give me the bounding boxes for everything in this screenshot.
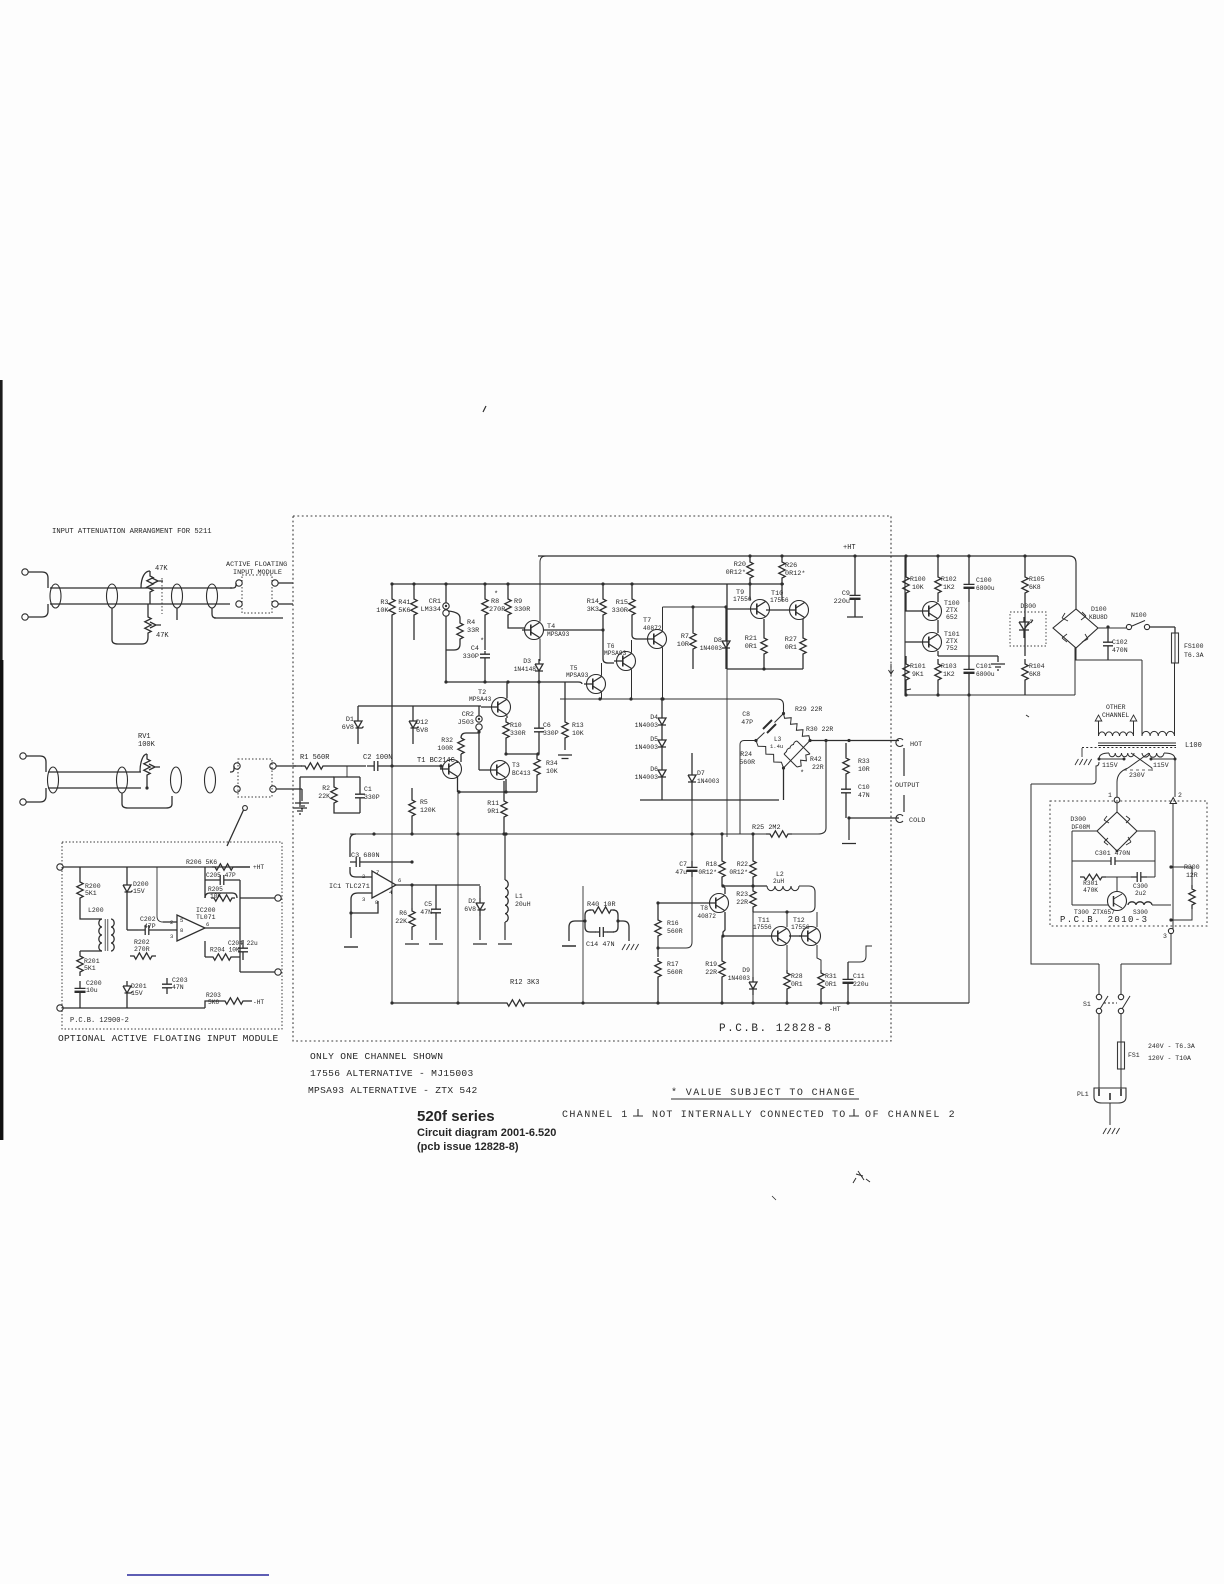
svg-text:MPSA93 ALTERNATIVE - ZTX 5: MPSA93 ALTERNATIVE - ZTX 542 xyxy=(308,1085,478,1096)
svg-text:IC1 TLC271: IC1 TLC271 xyxy=(329,883,370,891)
svg-text:R200: R200 xyxy=(85,883,101,890)
svg-text:5K6: 5K6 xyxy=(398,607,410,615)
svg-text:3K3: 3K3 xyxy=(587,606,599,614)
svg-text:C3 680N: C3 680N xyxy=(351,852,380,860)
svg-text:0R1: 0R1 xyxy=(825,981,837,988)
svg-text:47N: 47N xyxy=(420,909,432,916)
svg-text:47N: 47N xyxy=(858,792,870,799)
svg-text:C8: C8 xyxy=(742,711,750,718)
svg-text:7: 7 xyxy=(376,869,379,876)
svg-text:Circuit diagram 2001-6.520: Circuit diagram 2001-6.520 xyxy=(417,1127,556,1139)
svg-text:752: 752 xyxy=(946,645,958,652)
svg-text:1N4003: 1N4003 xyxy=(728,975,751,982)
svg-text:520f series: 520f series xyxy=(417,1108,495,1125)
svg-text:R2: R2 xyxy=(322,785,330,792)
svg-text:T8: T8 xyxy=(700,905,708,912)
svg-text:L2: L2 xyxy=(776,871,784,878)
svg-text:R23: R23 xyxy=(736,891,748,898)
svg-text:17556: 17556 xyxy=(770,597,789,604)
svg-text:6800u: 6800u xyxy=(976,585,995,592)
svg-text:1N4003: 1N4003 xyxy=(635,722,659,729)
svg-text:230V: 230V xyxy=(1129,772,1145,779)
svg-text:1: 1 xyxy=(1108,792,1112,799)
svg-text:R11: R11 xyxy=(487,800,499,807)
svg-text:R204 10K: R204 10K xyxy=(210,947,240,954)
svg-text:2u2: 2u2 xyxy=(1135,890,1146,897)
svg-text:R8: R8 xyxy=(491,598,499,606)
svg-text:C202: C202 xyxy=(140,916,156,923)
svg-text:HOT: HOT xyxy=(910,741,922,749)
svg-text:560R: 560R xyxy=(667,969,683,976)
svg-text:1N4148: 1N4148 xyxy=(514,666,537,673)
svg-text:R15: R15 xyxy=(616,599,628,607)
svg-text:10K: 10K xyxy=(912,584,924,591)
svg-text:N100: N100 xyxy=(1131,612,1147,619)
svg-text:3: 3 xyxy=(362,896,365,903)
svg-text:0R12*: 0R12* xyxy=(729,869,748,876)
svg-text:R28: R28 xyxy=(791,973,803,980)
svg-text:P.C.B. 2010-3: P.C.B. 2010-3 xyxy=(1060,915,1148,925)
svg-text:T7: T7 xyxy=(643,617,651,625)
svg-text:47P: 47P xyxy=(144,923,156,930)
svg-text:47P: 47P xyxy=(741,719,753,726)
svg-text:R16: R16 xyxy=(667,920,679,927)
svg-text:17556: 17556 xyxy=(791,924,810,931)
svg-text:R20: R20 xyxy=(734,561,746,569)
svg-text:R27: R27 xyxy=(785,636,797,644)
svg-text:R206 5K6: R206 5K6 xyxy=(186,859,217,866)
svg-text:R17: R17 xyxy=(667,961,679,968)
svg-text:R101: R101 xyxy=(910,663,926,670)
svg-text:R102: R102 xyxy=(941,576,957,583)
svg-text:NOT INTERNALLY CONNECTED TO: NOT INTERNALLY CONNECTED TO xyxy=(652,1110,846,1121)
svg-text:D4: D4 xyxy=(650,714,658,721)
svg-text:CHANNEL: CHANNEL xyxy=(1102,712,1129,719)
svg-text:R103: R103 xyxy=(941,663,957,670)
svg-text:0R12*: 0R12* xyxy=(785,570,805,578)
svg-text:-HT: -HT xyxy=(829,1006,841,1013)
svg-text:INPUT MODULE: INPUT MODULE xyxy=(233,569,282,577)
svg-text:C7: C7 xyxy=(679,861,687,868)
svg-text:D2: D2 xyxy=(468,898,476,905)
svg-text:OTHER: OTHER xyxy=(1106,704,1126,711)
svg-text:0R12*: 0R12* xyxy=(726,569,746,577)
svg-text:CHANNEL 1: CHANNEL 1 xyxy=(562,1110,629,1121)
svg-text:560R: 560R xyxy=(667,928,683,935)
svg-text:0R1: 0R1 xyxy=(791,981,803,988)
svg-text:R100: R100 xyxy=(910,576,926,583)
svg-text:T6: T6 xyxy=(607,643,615,650)
svg-text:R41: R41 xyxy=(398,599,410,607)
svg-text:15V: 15V xyxy=(131,990,143,997)
svg-text:C203: C203 xyxy=(172,977,188,984)
svg-text:1K2: 1K2 xyxy=(943,584,955,591)
svg-text:R13: R13 xyxy=(572,722,584,729)
svg-text:* VALUE SUBJECT TO CHANGE: * VALUE SUBJECT TO CHANGE xyxy=(671,1087,856,1099)
svg-text:T5: T5 xyxy=(570,665,578,672)
svg-text:240V - T6.3A: 240V - T6.3A xyxy=(1148,1043,1195,1050)
svg-text:R205: R205 xyxy=(208,886,223,893)
svg-text:6V8: 6V8 xyxy=(342,724,354,732)
svg-text:10K: 10K xyxy=(572,730,584,737)
svg-text:ONLY ONE CHANNEL SHOWN: ONLY ONE CHANNEL SHOWN xyxy=(310,1051,443,1062)
svg-text:22R: 22R xyxy=(812,764,824,771)
svg-text:R9: R9 xyxy=(514,598,522,606)
svg-text:0R12*: 0R12* xyxy=(698,869,717,876)
svg-text:120K: 120K xyxy=(420,807,436,814)
svg-text:17556: 17556 xyxy=(753,924,772,931)
svg-text:TL071: TL071 xyxy=(196,914,216,921)
svg-text:1K2: 1K2 xyxy=(943,671,955,678)
svg-text:*: * xyxy=(494,591,498,599)
svg-text:R203: R203 xyxy=(206,992,221,999)
svg-text:R42: R42 xyxy=(810,756,822,763)
svg-text:D9: D9 xyxy=(742,967,750,974)
svg-text:C300: C300 xyxy=(1133,883,1148,890)
svg-text:R201: R201 xyxy=(84,958,100,965)
svg-text:D6: D6 xyxy=(650,766,658,773)
svg-text:6800u: 6800u xyxy=(976,671,995,678)
svg-text:R12 3K3: R12 3K3 xyxy=(510,979,539,987)
svg-text:D201: D201 xyxy=(131,983,147,990)
svg-text:LM334: LM334 xyxy=(421,606,441,614)
svg-text:R29 22R: R29 22R xyxy=(795,706,822,713)
svg-text:47N: 47N xyxy=(172,984,184,991)
svg-text:652: 652 xyxy=(946,614,958,621)
svg-text:R31: R31 xyxy=(825,973,837,980)
svg-text:R1 560R: R1 560R xyxy=(300,754,330,762)
svg-text:C9: C9 xyxy=(842,590,850,598)
svg-text:C4: C4 xyxy=(471,645,479,653)
svg-text:T11: T11 xyxy=(758,917,770,924)
svg-text:40872: 40872 xyxy=(697,913,716,920)
svg-text:COLD: COLD xyxy=(909,817,925,825)
svg-text:R19: R19 xyxy=(705,961,717,968)
svg-text:OUTPUT: OUTPUT xyxy=(895,782,919,790)
svg-text:C301 470N: C301 470N xyxy=(1095,850,1130,857)
svg-text:220u: 220u xyxy=(853,981,869,988)
svg-text:1N4003: 1N4003 xyxy=(635,774,659,781)
svg-text:T3: T3 xyxy=(512,762,520,769)
svg-text:R34: R34 xyxy=(546,760,558,767)
svg-text:L1: L1 xyxy=(515,893,523,900)
svg-text:R22: R22 xyxy=(737,861,748,868)
svg-text:270R: 270R xyxy=(489,606,505,614)
svg-text:2uH: 2uH xyxy=(773,878,784,885)
svg-text:17556 ALTERNATIVE - MJ15003: 17556 ALTERNATIVE - MJ15003 xyxy=(310,1068,474,1079)
svg-text:330P: 330P xyxy=(364,794,380,801)
svg-text:P.C.B. 12900-2: P.C.B. 12900-2 xyxy=(70,1017,129,1025)
svg-text:S1: S1 xyxy=(1083,1001,1091,1008)
svg-text:6V8: 6V8 xyxy=(416,727,428,735)
svg-text:10u: 10u xyxy=(86,987,98,994)
svg-text:R5: R5 xyxy=(420,799,428,806)
svg-text:8: 8 xyxy=(180,927,183,934)
svg-text:ZTX: ZTX xyxy=(946,638,958,645)
svg-text:T300 ZTX657: T300 ZTX657 xyxy=(1074,909,1115,916)
svg-text:*: * xyxy=(800,770,804,778)
svg-text:R24: R24 xyxy=(740,751,752,758)
svg-text:5K6: 5K6 xyxy=(208,999,219,1006)
svg-text:D1: D1 xyxy=(346,716,354,724)
svg-text:CR2: CR2 xyxy=(462,711,474,719)
svg-text:20uH: 20uH xyxy=(515,901,531,908)
svg-text:C1: C1 xyxy=(364,786,372,793)
svg-text:47K: 47K xyxy=(156,632,169,640)
svg-text:L100: L100 xyxy=(1185,742,1202,750)
svg-text:15V: 15V xyxy=(133,888,145,895)
svg-text:R18: R18 xyxy=(706,861,717,868)
svg-text:6V8: 6V8 xyxy=(464,906,476,913)
svg-text:BC413: BC413 xyxy=(512,770,531,777)
svg-text:ACTIVE FLOATING: ACTIVE FLOATING xyxy=(226,561,287,569)
svg-text:MPSA93: MPSA93 xyxy=(566,672,589,679)
svg-text:INPUT ATTENUATION ARRANGMENT: INPUT ATTENUATION ARRANGMENT FOR 5211 xyxy=(52,528,212,536)
svg-text:D200: D200 xyxy=(133,881,149,888)
svg-text:2: 2 xyxy=(362,873,365,880)
svg-text:T101: T101 xyxy=(944,631,960,638)
svg-text:D12: D12 xyxy=(416,719,428,727)
svg-text:10R: 10R xyxy=(677,641,689,649)
svg-text:C10: C10 xyxy=(858,784,870,791)
svg-text:R202: R202 xyxy=(134,939,150,946)
svg-text:R3: R3 xyxy=(380,599,388,607)
svg-text:RV1: RV1 xyxy=(138,733,151,741)
svg-text:C2 100N: C2 100N xyxy=(363,754,392,762)
svg-text:C6: C6 xyxy=(543,722,551,729)
svg-text:C101: C101 xyxy=(976,663,992,670)
svg-text:+HT: +HT xyxy=(253,864,264,871)
svg-text:1.4u: 1.4u xyxy=(770,743,783,750)
svg-text:120V - T10A: 120V - T10A xyxy=(1148,1055,1191,1062)
svg-text:T100: T100 xyxy=(944,600,960,607)
svg-text:17556: 17556 xyxy=(733,596,752,603)
svg-text:OPTIONAL ACTIVE FLOATING INPUT: OPTIONAL ACTIVE FLOATING INPUT MODULE xyxy=(58,1033,278,1044)
svg-text:J503: J503 xyxy=(458,719,474,727)
svg-text:D3: D3 xyxy=(523,658,531,665)
svg-text:33R: 33R xyxy=(467,627,479,635)
svg-text:R33: R33 xyxy=(858,758,870,765)
svg-text:C200: C200 xyxy=(86,980,102,987)
svg-text:R10: R10 xyxy=(510,722,522,729)
svg-text:C5: C5 xyxy=(424,901,432,908)
svg-text:10K: 10K xyxy=(546,768,558,775)
svg-text:MPSA43: MPSA43 xyxy=(469,696,492,703)
svg-text:T12: T12 xyxy=(793,917,805,924)
svg-text:330R: 330R xyxy=(510,730,526,737)
svg-text:C205 47P: C205 47P xyxy=(206,872,236,879)
svg-text:+HT: +HT xyxy=(843,544,856,552)
svg-text:1N4003: 1N4003 xyxy=(700,645,723,652)
svg-text:C14 47N: C14 47N xyxy=(586,941,615,949)
svg-text:CR1: CR1 xyxy=(429,598,441,606)
svg-text:6: 6 xyxy=(398,877,401,884)
svg-text:0R1: 0R1 xyxy=(745,643,757,651)
svg-text:3: 3 xyxy=(170,933,173,940)
svg-text:2: 2 xyxy=(1178,792,1182,799)
svg-text:220u: 220u xyxy=(834,598,850,606)
svg-text:22K: 22K xyxy=(318,793,330,800)
svg-text:L3: L3 xyxy=(774,736,782,743)
svg-text:330R: 330R xyxy=(612,607,628,615)
svg-text:330P: 330P xyxy=(463,653,479,661)
svg-text:ZTX: ZTX xyxy=(946,607,958,614)
svg-text:9R1: 9R1 xyxy=(487,808,499,815)
svg-text:100K: 100K xyxy=(138,741,156,749)
svg-text:330P: 330P xyxy=(543,730,559,737)
svg-text:470K: 470K xyxy=(1083,887,1098,894)
svg-text:22R: 22R xyxy=(736,899,748,906)
svg-text:-HT: -HT xyxy=(253,999,264,1006)
svg-text:KBU8D: KBU8D xyxy=(1089,614,1108,621)
svg-text:D8: D8 xyxy=(714,637,722,645)
svg-text:D300: D300 xyxy=(1070,816,1086,823)
svg-text:5K1: 5K1 xyxy=(85,890,97,897)
svg-text:5: 5 xyxy=(180,917,183,924)
svg-text:R4: R4 xyxy=(467,619,475,627)
svg-text:T6.3A: T6.3A xyxy=(1184,652,1204,659)
svg-text:FS100: FS100 xyxy=(1184,643,1204,650)
svg-text:115V: 115V xyxy=(1102,762,1118,769)
svg-text:115V: 115V xyxy=(1153,762,1169,769)
svg-text:C11: C11 xyxy=(853,973,865,980)
svg-text:22R: 22R xyxy=(705,969,717,976)
svg-text:C102: C102 xyxy=(1112,639,1128,646)
svg-text:10R: 10R xyxy=(858,766,870,773)
svg-text:R26: R26 xyxy=(785,562,797,570)
svg-text:R105: R105 xyxy=(1029,576,1045,583)
svg-text:DF08M: DF08M xyxy=(1071,824,1090,831)
svg-text:270R: 270R xyxy=(134,946,150,953)
svg-text:R32: R32 xyxy=(441,737,453,744)
svg-text:R40 10R: R40 10R xyxy=(587,901,616,909)
svg-text:IC200: IC200 xyxy=(196,907,216,914)
svg-text:6K8: 6K8 xyxy=(1029,584,1041,591)
svg-text:9K1: 9K1 xyxy=(912,671,924,678)
svg-text:D100: D100 xyxy=(1091,606,1107,613)
svg-text:5K1: 5K1 xyxy=(84,965,96,972)
svg-text:1N4003: 1N4003 xyxy=(635,744,659,751)
svg-text:100R: 100R xyxy=(437,745,453,752)
svg-text:(pcb issue 12828-8): (pcb issue 12828-8) xyxy=(417,1141,519,1153)
svg-text:40872: 40872 xyxy=(643,625,662,632)
svg-text:OF CHANNEL 2: OF CHANNEL 2 xyxy=(865,1110,956,1121)
svg-text:47u: 47u xyxy=(675,869,687,876)
svg-text:1N4003: 1N4003 xyxy=(697,778,720,785)
svg-text:R6: R6 xyxy=(399,910,407,917)
svg-text:470N: 470N xyxy=(1112,647,1128,654)
svg-text:0R1: 0R1 xyxy=(785,644,797,652)
svg-text:R30 22R: R30 22R xyxy=(806,726,833,733)
svg-text:47K: 47K xyxy=(155,565,168,573)
svg-text:S300: S300 xyxy=(1133,909,1148,916)
svg-text:22K: 22K xyxy=(395,918,407,925)
svg-text:R25 2M2: R25 2M2 xyxy=(752,824,781,832)
svg-text:R301: R301 xyxy=(1083,880,1098,887)
svg-text:560R: 560R xyxy=(739,759,755,766)
svg-text:MPSA93: MPSA93 xyxy=(604,650,627,657)
svg-text:MPSA93: MPSA93 xyxy=(547,631,570,638)
svg-text:P.C.B. 12828-8: P.C.B. 12828-8 xyxy=(719,1023,832,1035)
svg-text:PL1: PL1 xyxy=(1077,1091,1089,1098)
svg-text:D5: D5 xyxy=(650,736,658,743)
svg-text:330R: 330R xyxy=(514,606,530,614)
svg-text:*: * xyxy=(480,638,484,646)
svg-text:10K: 10K xyxy=(210,893,221,900)
svg-text:6K8: 6K8 xyxy=(1029,671,1041,678)
svg-text:L200: L200 xyxy=(88,907,104,914)
svg-text:C100: C100 xyxy=(976,577,992,584)
svg-text:R21: R21 xyxy=(745,635,757,643)
svg-text:6: 6 xyxy=(206,921,209,928)
svg-text:R14: R14 xyxy=(587,598,599,606)
svg-text:R104: R104 xyxy=(1029,663,1045,670)
svg-text:D7: D7 xyxy=(697,770,705,777)
svg-text:D300: D300 xyxy=(1020,603,1036,610)
svg-text:10K: 10K xyxy=(376,607,389,615)
svg-text:FS1: FS1 xyxy=(1128,1052,1140,1059)
svg-text:R7: R7 xyxy=(681,633,689,641)
svg-text:3: 3 xyxy=(1163,933,1167,940)
